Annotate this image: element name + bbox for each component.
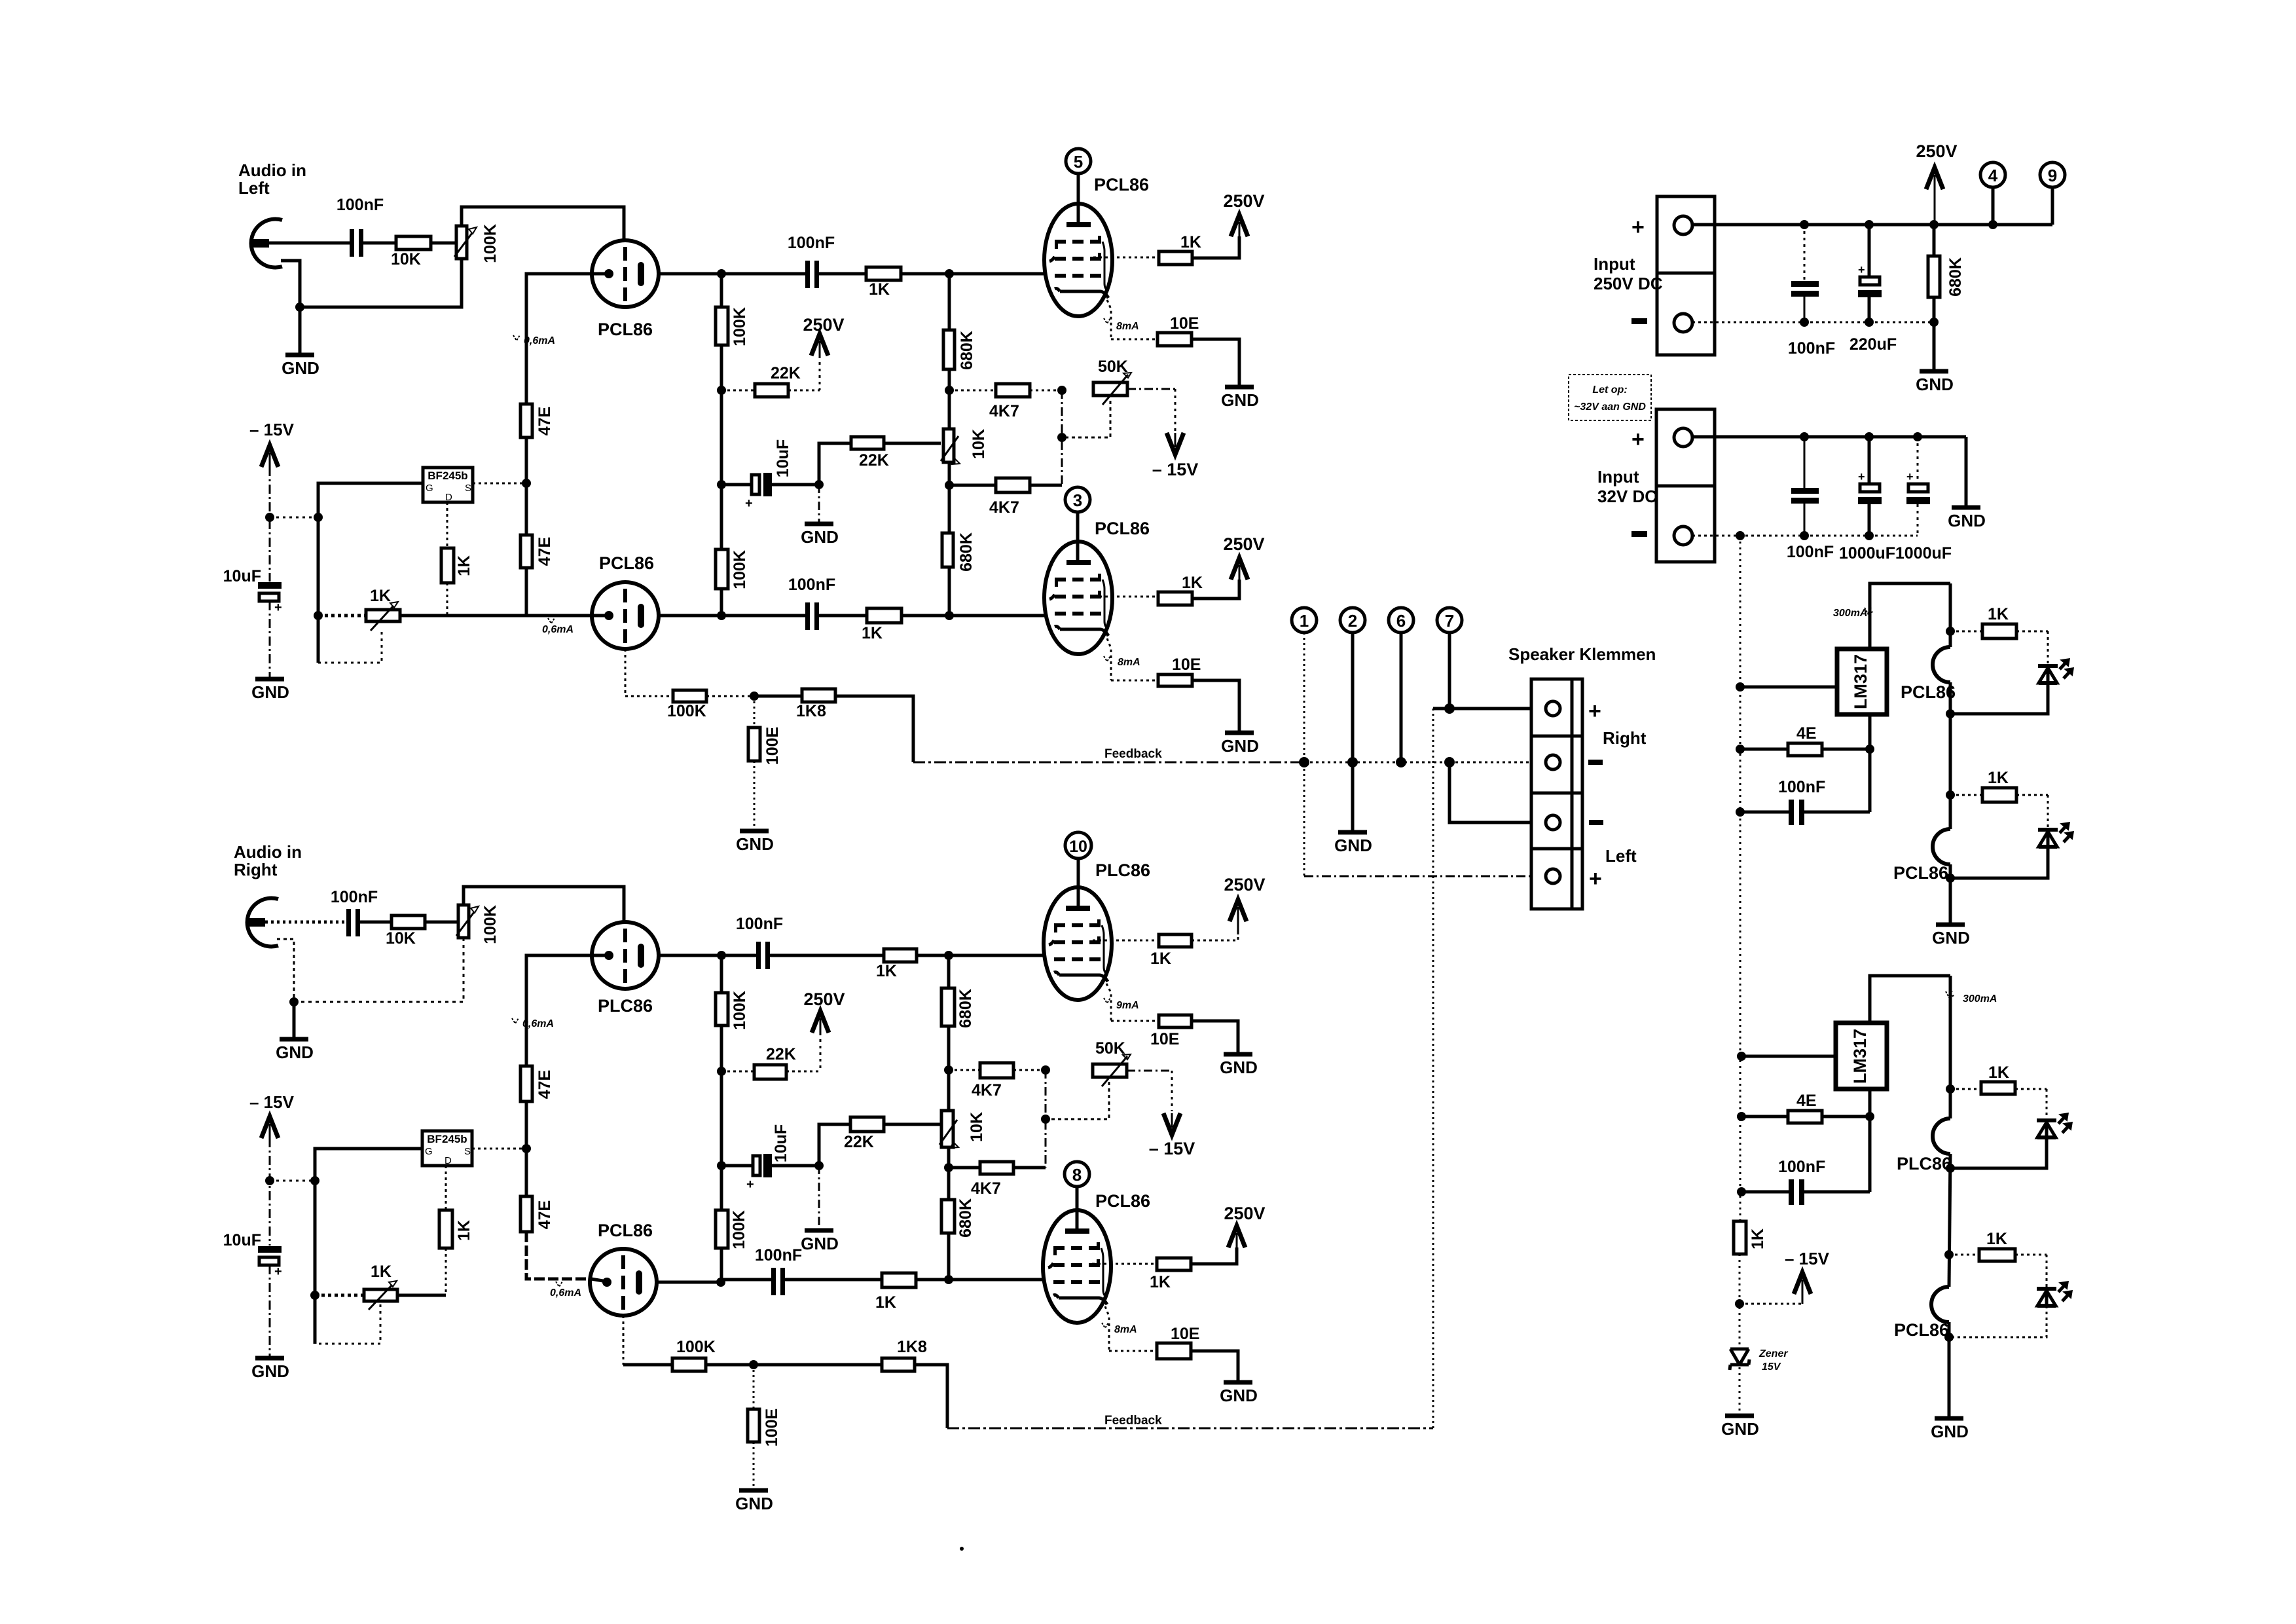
svg-text:+: +: [1858, 263, 1865, 276]
svg-text:PCL86: PCL86: [1095, 1191, 1150, 1211]
svg-text:10uF: 10uF: [772, 1124, 790, 1162]
tube V1a triode PCL86 left: [591, 240, 659, 307]
svg-text:1K: 1K: [1150, 950, 1171, 968]
label PCL86 V2: [1094, 175, 1149, 194]
node 250V supply V6: [1224, 1204, 1265, 1247]
svg-text:1K: 1K: [1986, 1230, 2007, 1248]
ground GND 100E right: [735, 1490, 773, 1513]
svg-text:10uF: 10uF: [223, 567, 261, 585]
resistor R42 100E feedback right: [748, 1365, 781, 1447]
junction 4K7 row lower right: [944, 1163, 953, 1172]
node pin 7 circle: [1437, 608, 1462, 633]
junction minus bus at 100nF: [1800, 318, 1809, 327]
svg-text:100nF: 100nF: [755, 1246, 802, 1264]
svg-text:1K: 1K: [1150, 1273, 1171, 1291]
junction 4K7 row upper left: [945, 386, 954, 395]
svg-text:4K7: 4K7: [989, 498, 1019, 517]
wire LM317b out to heater top: [1870, 976, 1950, 1023]
wire P7 wiper return right: [1046, 1082, 1109, 1119]
label plus 32V: [1631, 427, 1645, 452]
junction rail 4E row b: [1737, 1112, 1746, 1121]
wire P5 bottom to ground bus right: [294, 938, 464, 1002]
node 250V supply V5: [1224, 875, 1265, 934]
ground GND below C2 left: [251, 679, 289, 702]
wire C7 to ground right: [269, 1265, 271, 1357]
ground GND heater a: [1932, 864, 1970, 948]
svg-text:PLC86: PLC86: [598, 996, 653, 1016]
svg-text:100K: 100K: [481, 905, 500, 944]
svg-text:3: 3: [1073, 490, 1082, 510]
potentiometer P4 10K left: [941, 429, 988, 464]
svg-text:250V: 250V: [1224, 875, 1265, 895]
wire pin5 to tube V2: [1077, 174, 1080, 223]
svg-text:100nF: 100nF: [1778, 1158, 1825, 1176]
wire pin2 column: [1351, 633, 1355, 762]
node 250V supply arrow right driver: [803, 989, 845, 1071]
svg-text:PCL86: PCL86: [598, 320, 653, 339]
svg-text:+: +: [745, 496, 753, 511]
label Left: [1605, 846, 1637, 866]
terminal hole left plus: [1546, 869, 1560, 883]
node -15V drop right: [1149, 1113, 1195, 1158]
label Input 32V DC: [1597, 467, 1657, 506]
svg-text:Input: Input: [1594, 254, 1635, 274]
heater H2 PCL86 coil: [1893, 829, 1950, 883]
svg-text:1K: 1K: [1988, 605, 2009, 623]
svg-text:2: 2: [1348, 611, 1357, 631]
wire V5 anode to R36: [1093, 940, 1159, 942]
ground GND cathode V5: [1220, 1054, 1258, 1077]
label 300mA b: [1946, 991, 1997, 1005]
wire V4a node to C9: [721, 954, 756, 957]
junction pin1 at feedback row: [1299, 757, 1309, 767]
svg-text:100K: 100K: [731, 991, 749, 1030]
svg-text:250V: 250V: [803, 989, 845, 1009]
wire V6 anode to R38: [1092, 1263, 1157, 1265]
tube V6 pentode PCL86 output lower right: [1043, 1210, 1111, 1323]
wire R25 to trimmer row right: [445, 1248, 447, 1295]
node Audio in Right label: [234, 842, 302, 879]
junction input ground left: [295, 303, 304, 312]
transistor Q1 BF245b left: [423, 468, 473, 503]
wire -15V left rail: [269, 467, 271, 581]
resistor R35 680K lower right: [941, 1168, 975, 1280]
junction gate column at trimmer row: [314, 611, 323, 620]
junction plus bus at 220uF: [1865, 220, 1874, 229]
junction rail 100nF row b: [1737, 1187, 1746, 1196]
junction V4b anode node: [716, 1278, 725, 1287]
resistor R15 1K anode V2: [1159, 233, 1201, 265]
resistor R19 100K feedback left: [667, 690, 706, 720]
ground GND mid left: [801, 485, 839, 547]
svg-text:47E: 47E: [536, 537, 554, 566]
wire R21 to ground: [754, 761, 756, 830]
svg-text:– 15V: – 15V: [249, 420, 295, 439]
svg-text:250V: 250V: [1224, 1204, 1265, 1223]
capacitor C17 100nF reg b: [1741, 1158, 1870, 1205]
resistor R3 47E lower left: [520, 483, 554, 568]
svg-text:220uF: 220uF: [1850, 335, 1897, 354]
svg-text:PCL86: PCL86: [1893, 863, 1948, 883]
resistor R38 1K anode V6: [1150, 1258, 1191, 1291]
potentiometer P7 50K balance right: [1093, 1039, 1131, 1086]
label PCL86 V4b: [598, 1221, 653, 1240]
junction pin7 minus row: [1444, 757, 1455, 767]
resistor R41 1K8 feedback right: [754, 1338, 927, 1371]
svg-text:47E: 47E: [536, 1070, 554, 1099]
wire trimmer to 47E column row: [400, 614, 526, 618]
terminal hole right plus: [1546, 701, 1560, 716]
junction 32V bus at 1000uF a: [1865, 432, 1874, 441]
svg-text:100nF: 100nF: [736, 915, 783, 933]
resistor R36 1K anode V5: [1150, 934, 1192, 968]
svg-text:100K: 100K: [667, 702, 706, 720]
wire V3 anode to R17: [1093, 596, 1158, 598]
svg-text:Right: Right: [1603, 728, 1647, 748]
svg-text:1K: 1K: [370, 587, 391, 605]
svg-text:22K: 22K: [844, 1133, 874, 1151]
svg-text:680K: 680K: [1946, 257, 1965, 297]
label PLC86 V4a: [598, 996, 653, 1016]
svg-text:1K: 1K: [869, 280, 890, 299]
wire minus link to Left minus: [1449, 762, 1531, 822]
resistor R45 1K LED1: [1950, 605, 2048, 638]
svg-text:1K: 1K: [862, 624, 883, 642]
junction -15V takeoff: [1735, 1299, 1744, 1308]
wire feedback row left start: [625, 695, 673, 697]
svg-text:4E: 4E: [1796, 724, 1817, 743]
wire C6 to R22: [360, 921, 392, 924]
svg-text:+: +: [1906, 470, 1914, 483]
junction gate column at -15V row: [314, 513, 323, 522]
junction rail LM317b in: [1737, 1052, 1746, 1061]
svg-text:Input: Input: [1597, 467, 1639, 487]
svg-text:8mA: 8mA: [1114, 1324, 1137, 1335]
svg-text:10E: 10E: [1150, 1030, 1179, 1048]
connector J2 RCA Audio in Right: [247, 898, 278, 947]
wire V1a node to C4: [721, 272, 805, 276]
svg-text:100nF: 100nF: [1788, 339, 1835, 358]
connector speaker terminal block: [1531, 679, 1582, 909]
svg-text:100nF: 100nF: [337, 196, 384, 214]
svg-text:0,6mA: 0,6mA: [550, 1287, 581, 1299]
svg-text:PLC86: PLC86: [1095, 860, 1150, 880]
svg-text:9mA: 9mA: [1116, 1000, 1139, 1011]
label 8mA V5: [1104, 998, 1139, 1011]
svg-text:50K: 50K: [1095, 1039, 1125, 1058]
svg-text:– 15V: – 15V: [1152, 460, 1199, 479]
svg-text:250V: 250V: [1223, 191, 1264, 211]
wire V4a anode to node column right: [659, 954, 721, 957]
wire P8 bottom to 4K7 row lower right: [947, 1147, 951, 1168]
resistor R33 4K7 upper right: [949, 1063, 1046, 1099]
wire -15V rail to G column: [270, 517, 318, 519]
junction 47E column S row: [522, 479, 531, 488]
node pin 8 circle right: [1065, 1162, 1089, 1187]
junction 47E column S row right: [522, 1144, 531, 1153]
label 0.6mA V1a: [513, 335, 555, 346]
svg-text:680K: 680K: [958, 331, 976, 370]
resistor R48 1K zener: [1734, 1221, 1767, 1254]
tube V2 pentode PCL86 output upper left: [1044, 204, 1112, 316]
wire P5 top to triode V4a grid: [464, 887, 624, 921]
wire V6 cathode down: [1105, 1306, 1109, 1351]
resistor R43 680K bleeder: [1928, 225, 1965, 322]
label 300mA a: [1833, 608, 1873, 619]
wire 1K to -15V row: [1739, 1254, 1741, 1349]
wire R3 to triode V1b cathode row: [526, 568, 591, 616]
label 8mA V6: [1102, 1323, 1137, 1335]
node 250V supply V3: [1223, 534, 1264, 580]
svg-text:100K: 100K: [730, 1210, 748, 1249]
wire LED4 to heater: [1949, 1306, 2047, 1337]
resistor R34 4K7 lower right: [949, 1162, 1046, 1198]
junction gate column at -15V row right: [310, 1176, 319, 1185]
junction feedback 100E left: [750, 692, 759, 701]
ground GND psu 32V: [1948, 437, 1986, 530]
wire R10 to tube V3 grid: [902, 614, 1045, 618]
svg-text:1: 1: [1300, 611, 1309, 631]
junction heater a LED1 row: [1946, 627, 1955, 636]
ground GND cathode V3: [1221, 733, 1259, 756]
wire V2 cathode down: [1107, 300, 1111, 339]
resistor R14 680K lower left: [942, 485, 975, 616]
ground GND mid right: [801, 1166, 839, 1253]
terminal hole left minus: [1546, 815, 1560, 830]
resistor R11 680K upper left: [943, 274, 976, 429]
wire heater chain a top: [1949, 583, 1952, 647]
label Feedback left: [1104, 747, 1162, 761]
wire R37 to ground V5: [1192, 1021, 1238, 1053]
svg-text:680K: 680K: [957, 532, 975, 572]
junction 680K top node upper: [945, 269, 954, 278]
junction minus bus at 680K: [1929, 318, 1939, 327]
ground GND 100E left: [736, 831, 774, 854]
wire 50K column right: [1045, 1070, 1047, 1168]
wire heater a mid: [1949, 682, 1952, 829]
svg-text:Audio in: Audio in: [238, 160, 306, 180]
svg-text:7: 7: [1445, 611, 1454, 631]
svg-text:8mA: 8mA: [1116, 321, 1139, 332]
junction 22K row left: [717, 386, 726, 395]
node pin 4 circle: [1980, 162, 2005, 225]
svg-text:1K: 1K: [1988, 769, 2009, 787]
svg-text:1K8: 1K8: [897, 1338, 927, 1356]
svg-text:LM317: LM317: [1850, 1029, 1870, 1084]
node 250V supply arrow left driver: [803, 315, 844, 390]
node -15V supply right: [249, 1092, 295, 1138]
junction V1b anode node: [717, 611, 726, 620]
capacitor C5 100nF coupling lower left: [788, 576, 835, 630]
wire heater b mid: [1949, 1154, 1950, 1287]
svg-text:1K: 1K: [875, 1293, 896, 1312]
junction heater b LED3 row: [1946, 1084, 1955, 1094]
wire 250V minus bus: [1692, 322, 1934, 323]
junction 22K row right: [717, 1067, 726, 1076]
capacitor C15 1000uF psu 32V b: [1895, 437, 1952, 563]
junction 32V bus at 100nF: [1800, 432, 1809, 441]
resistor R18 10E cathode V3: [1111, 655, 1201, 686]
svg-text:PCL86: PCL86: [1094, 175, 1149, 194]
junction plus bus at 100nF: [1800, 220, 1809, 229]
junction rail 4E row a: [1736, 745, 1745, 754]
svg-text:+: +: [1589, 866, 1602, 891]
svg-text:BF245b: BF245b: [428, 470, 467, 482]
svg-text:1K: 1K: [371, 1263, 392, 1281]
capacitor C3 10uF cathode left: [721, 439, 819, 511]
wire R1 to P1: [431, 242, 456, 245]
wire V4b cathode down to feedback row right: [623, 1316, 625, 1365]
terminal hole 250V minus: [1674, 314, 1692, 332]
svg-text:100K: 100K: [731, 307, 749, 346]
potentiometer P8 10K right: [939, 1111, 986, 1148]
junction V1a anode node: [717, 269, 726, 278]
wire feedback line right channel: [947, 1428, 1433, 1430]
junction heater a LED2 row: [1946, 790, 1955, 800]
heater H4 PCL86 coil: [1894, 1287, 1949, 1340]
svg-text:15V: 15V: [1762, 1361, 1781, 1373]
label speaker minus right: [1588, 760, 1603, 765]
wire C1 to R1: [363, 242, 396, 245]
wire triode V4a cathode to 47E R23: [526, 955, 591, 1066]
junction 32V bus at 1000uF b: [1913, 432, 1922, 441]
wire R4 to trimmer row: [446, 583, 448, 616]
svg-text:10K: 10K: [391, 250, 421, 268]
node -15V supply left: [249, 420, 295, 467]
node 250V supply V2: [1223, 191, 1264, 236]
wire P1 bottom to ground bus: [300, 259, 462, 307]
svg-text:250V: 250V: [803, 315, 844, 335]
capacitor C4 100nF coupling upper left: [788, 234, 835, 288]
wire 50K column left: [1061, 390, 1063, 485]
junction 50K row left: [1057, 386, 1066, 395]
resistor R6 22K upper left: [721, 364, 820, 397]
svg-text:PCL86: PCL86: [599, 553, 654, 573]
junction gate column at trimmer row right: [310, 1291, 319, 1300]
ground GND below C7 right: [251, 1358, 289, 1381]
junction 10uF row left: [717, 480, 726, 489]
svg-text:47E: 47E: [536, 1200, 554, 1229]
svg-text:G: G: [426, 483, 433, 494]
svg-text:1K: 1K: [1180, 233, 1201, 251]
wire V2 anode to R15: [1093, 257, 1159, 259]
svg-text:8: 8: [1072, 1165, 1082, 1185]
tube V5 pentode PLC86 output upper right: [1044, 887, 1112, 1000]
svg-text:5: 5: [1074, 152, 1083, 172]
wire V5 cathode down: [1106, 984, 1111, 1021]
junction plus bus at pin4: [1988, 220, 1997, 229]
wire trimmer row left: [318, 614, 366, 618]
svg-text:PCL86: PCL86: [1894, 1320, 1949, 1340]
svg-text:1K: 1K: [455, 555, 473, 576]
wire R18 to ground V3: [1192, 680, 1239, 731]
svg-text:6: 6: [1396, 611, 1406, 631]
node pin 3 circle left: [1065, 487, 1090, 512]
wire LED2 to heater: [1950, 847, 2048, 878]
label speaker minus left: [1589, 820, 1603, 825]
label 0.6mA V1b: [542, 618, 574, 635]
capacitor C7 10uF -15V right: [223, 1231, 282, 1279]
resistor R44 4E a: [1740, 724, 1870, 756]
resistor R37 10E cathode V5: [1111, 1015, 1192, 1048]
label PLC86 V5: [1095, 860, 1150, 880]
svg-text:1K8: 1K8: [796, 702, 826, 720]
resistor R1 10K input left: [391, 236, 431, 268]
junction minus bus at 220uF: [1865, 318, 1874, 327]
capacitor C9 100nF coupling upper right: [736, 915, 783, 969]
svg-text:+: +: [1631, 427, 1645, 452]
wire pin10 to tube V5: [1077, 858, 1080, 907]
svg-text:S: S: [464, 1146, 471, 1157]
svg-text:250V DC: 250V DC: [1594, 274, 1663, 293]
wire feedback line left channel: [913, 762, 1304, 764]
resistor R32 680K upper right: [941, 955, 975, 1111]
junction wiper return right: [1041, 1115, 1050, 1124]
ground GND cathode V6: [1220, 1382, 1258, 1405]
wire -32V rail: [1740, 536, 1741, 1221]
svg-text:22K: 22K: [766, 1045, 796, 1063]
junction pin2 at feedback row: [1347, 757, 1358, 767]
wire R16 to ground V2: [1192, 339, 1239, 386]
wire LED1 to heater: [1950, 683, 2048, 714]
svg-text:Audio in: Audio in: [234, 842, 302, 862]
node pin 9 circle: [2040, 162, 2065, 225]
junction C3 right node: [814, 480, 824, 489]
wire trimmer row right: [315, 1294, 364, 1297]
resistor R5 100K upper left: [716, 307, 749, 346]
resistor R47 4E b: [1741, 1092, 1870, 1123]
svg-text:Right: Right: [234, 860, 278, 879]
svg-text:– 15V: – 15V: [1149, 1139, 1195, 1158]
svg-text:4K7: 4K7: [971, 1179, 1001, 1198]
svg-text:22K: 22K: [771, 364, 801, 382]
junction heater b mid: [1946, 1164, 1955, 1173]
resistor R12 4K7 upper left: [949, 384, 1062, 420]
junction 680K top node lower: [945, 611, 954, 620]
wire R36 to 250V arrow: [1192, 934, 1238, 940]
wire Left plus row: [1304, 876, 1531, 877]
junction heater a bottom: [1946, 874, 1955, 883]
svg-text:100K: 100K: [731, 550, 749, 589]
svg-text:100nF: 100nF: [331, 888, 378, 906]
wire gate column left: [318, 483, 423, 663]
svg-text:100nF: 100nF: [1778, 778, 1825, 796]
svg-text:1K: 1K: [1749, 1228, 1767, 1249]
svg-text:8mA: 8mA: [1118, 657, 1140, 668]
junction V4a anode node: [717, 951, 726, 960]
wire heater chain b top: [1949, 976, 1952, 1118]
wire R31 to tube V6 grid: [916, 1278, 1043, 1282]
node pin 5 circle left: [1066, 149, 1091, 174]
wire V1b anode to node column: [659, 614, 721, 618]
svg-text:10uF: 10uF: [223, 1231, 261, 1249]
resistor R24 47E lower right: [520, 1149, 554, 1232]
junction heater b LED4 row: [1944, 1250, 1954, 1259]
resistor R23 47E upper right: [520, 1066, 554, 1101]
svg-text:D: D: [445, 492, 452, 503]
wire LM317b adj column: [1868, 1089, 1872, 1192]
junction heater b bottom: [1944, 1333, 1954, 1342]
junction 680K top node lower right: [944, 1275, 953, 1284]
svg-text:PCL86: PCL86: [1901, 682, 1956, 702]
node -15V drop left: [1152, 433, 1199, 479]
wire R24 to triode V4b cathode row: [526, 1232, 591, 1279]
wire LED3 to heater: [1950, 1137, 2047, 1168]
wire P3 wiper return left: [1062, 401, 1110, 437]
svg-text:D: D: [445, 1155, 452, 1166]
junction feedback 100E right: [749, 1360, 758, 1369]
svg-text:10uF: 10uF: [774, 439, 792, 477]
